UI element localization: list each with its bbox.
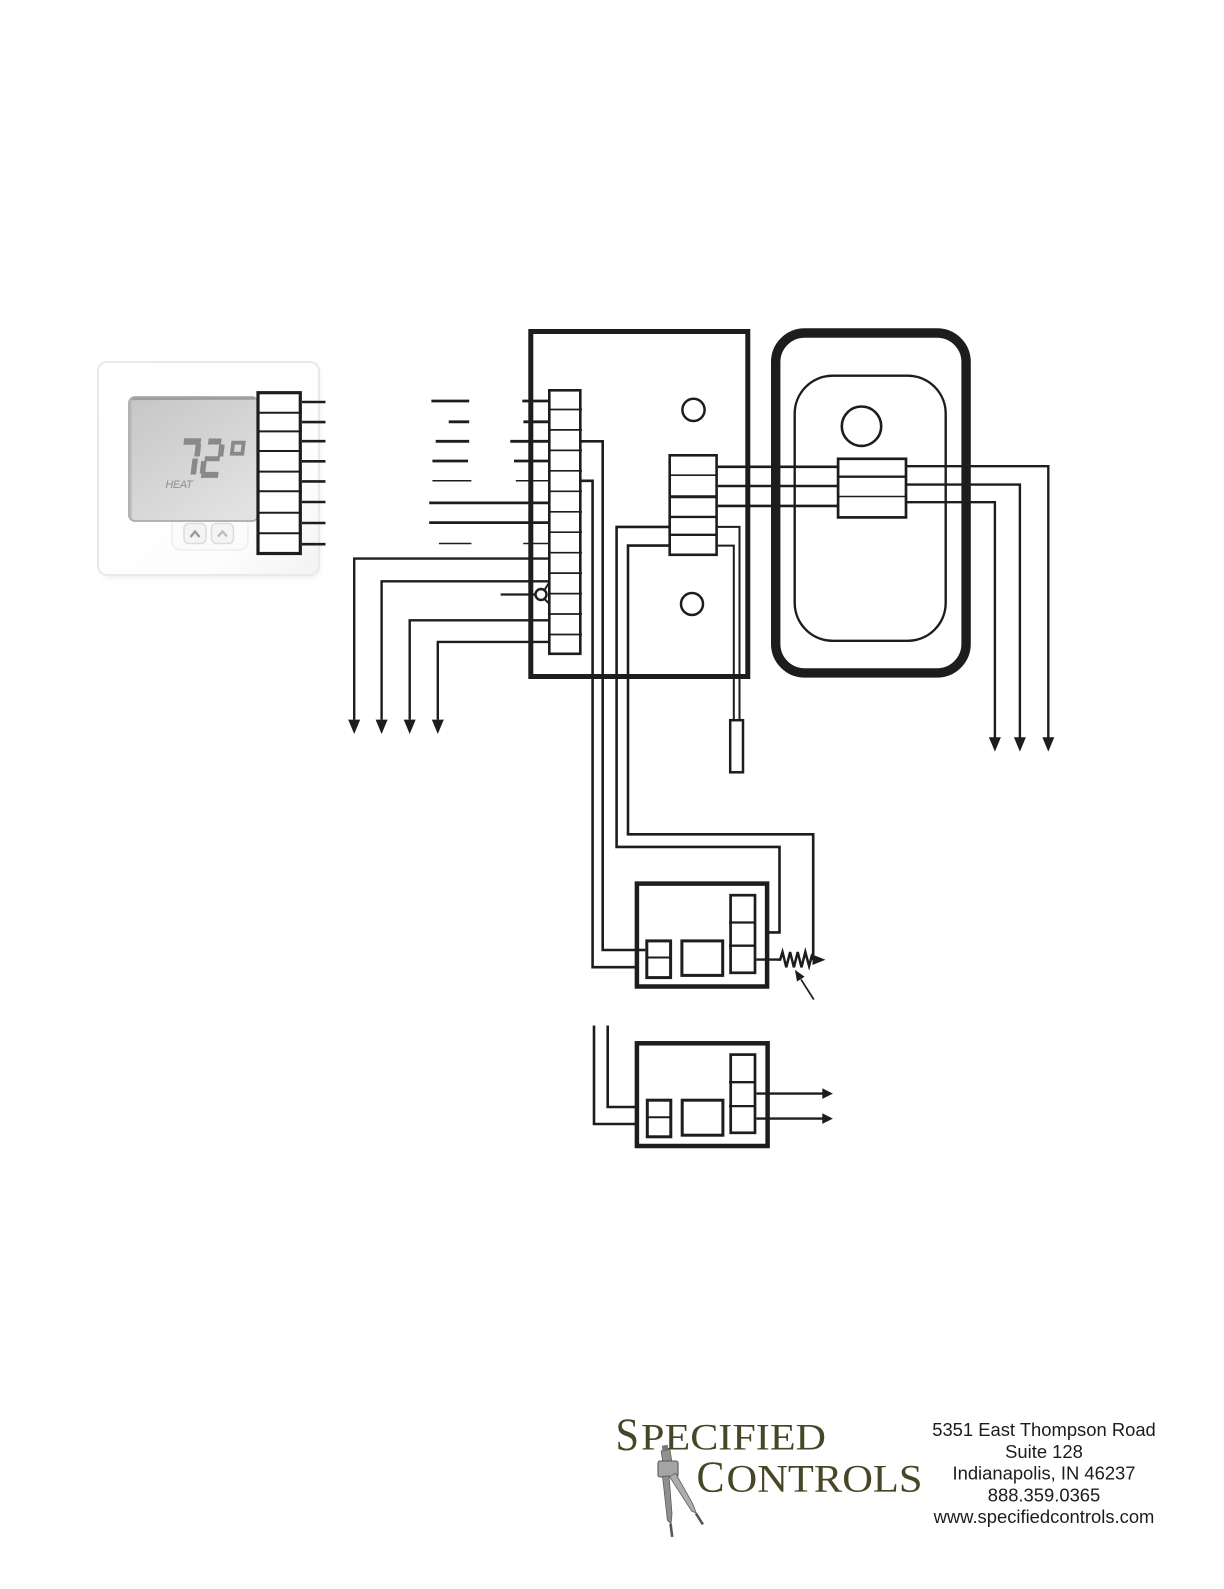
wire T1: TB3 cell1 to actuator block bbox=[718, 465, 838, 468]
controller mounting hole (top circle) bbox=[682, 399, 704, 421]
relay K1 box bbox=[637, 884, 767, 987]
logo compass icon bbox=[658, 1445, 705, 1538]
temperature sensor probe bbox=[730, 720, 743, 772]
relay K1 terminal strip bbox=[729, 895, 756, 973]
actuator terminal block TB4 (3 cells) bbox=[837, 459, 906, 518]
controller mounting hole (lower circle) bbox=[681, 593, 703, 615]
sensor bulb at TB2 row11 bbox=[501, 582, 550, 605]
wires into controller strip (rows 6,7 full; others stubs) bbox=[429, 401, 549, 544]
relay K2 floating wire 2 bbox=[608, 1026, 646, 1108]
sensor lead left line bbox=[717, 546, 734, 720]
wire B: TB2 row3 down to relay K1 bbox=[582, 441, 646, 950]
actuator shaft circle bbox=[842, 407, 881, 446]
arrow head 3 bbox=[404, 720, 416, 734]
svg-text:888.359.0365: 888.359.0365 bbox=[988, 1484, 1101, 1505]
mid-span broken wire dashes bbox=[431, 401, 471, 544]
wire: TB2 row13 to down-arrow 4 bbox=[438, 642, 549, 720]
relay K1 coil box bbox=[647, 941, 671, 978]
arrow head T3 bbox=[989, 737, 1001, 751]
terminal block TB3 (5 cells) bbox=[669, 455, 717, 555]
arrow head 1 bbox=[348, 720, 360, 734]
address block bbox=[932, 1419, 1156, 1527]
relay K2 terminal strip bbox=[729, 1055, 756, 1133]
controller box U1 bbox=[531, 332, 748, 677]
wire: TB2 row12 to down-arrow 3 bbox=[410, 620, 549, 719]
wire: TB2 row10 to down-arrow 2 bbox=[382, 581, 549, 719]
relay K1 wire out bottom to rheostat bbox=[756, 958, 778, 960]
relay K1 wire in left upper bbox=[637, 949, 645, 952]
wire A: TB2 row5 down to relay K1 bbox=[582, 481, 646, 967]
arrow head 4 bbox=[432, 720, 444, 734]
relay K2 floating wire 1 bbox=[594, 1026, 646, 1125]
controller terminal strip TB2 (13 cells) bbox=[548, 390, 582, 654]
actuator outer housing (rounded) bbox=[776, 333, 966, 673]
actuator inner housing bbox=[795, 376, 946, 641]
relay K2 coil box bbox=[647, 1100, 671, 1137]
svg-text:C: C bbox=[697, 1452, 725, 1502]
wire T1 out: actuator block right, down to arrow bbox=[906, 466, 1048, 738]
svg-text:ONTROLS: ONTROLS bbox=[727, 1457, 923, 1501]
thermostat terminal strip TB1 bbox=[257, 393, 302, 554]
wire T2 out bbox=[906, 485, 1020, 738]
arrow head T2 bbox=[1014, 737, 1026, 751]
logo SPECIFIED CONTROLS bbox=[616, 1409, 923, 1502]
wire T3: TB3 cell3 to actuator block bbox=[718, 505, 838, 508]
thermostat display digits 72 deg bbox=[180, 442, 244, 475]
arrow head K2 out1 bbox=[822, 1088, 833, 1099]
thermostat buttons bbox=[184, 524, 234, 544]
svg-text:www.specifiedcontrols.com: www.specifiedcontrols.com bbox=[933, 1506, 1155, 1527]
relay K2 box bbox=[637, 1043, 768, 1146]
TB1 wire stubs bbox=[302, 402, 326, 544]
arrow head K2 out2 bbox=[822, 1113, 833, 1124]
adjustment pointer arrow bbox=[795, 970, 814, 1000]
svg-text:HEAT: HEAT bbox=[166, 479, 194, 491]
wire: TB2 row9 to down-arrow 1 bbox=[354, 559, 549, 720]
wire T2: TB3 cell2 to actuator block bbox=[718, 485, 838, 488]
wire T3 out bbox=[906, 502, 995, 738]
rheostat R1 zigzag bbox=[778, 952, 814, 967]
rheostat output arrow bbox=[813, 955, 826, 965]
wire C: TB3 cell4 left, down, right, up into relay K1 bbox=[617, 527, 780, 933]
thermostat TSTAT body bbox=[98, 362, 320, 578]
arrow head 2 bbox=[376, 720, 388, 734]
thermostat LCD screen bbox=[129, 397, 258, 521]
relay K2 wire out 1 bbox=[756, 1092, 823, 1094]
wire D: TB3 cell5 left, down, right, down to rheostat bbox=[628, 546, 813, 960]
relay K2 contact box bbox=[682, 1100, 723, 1135]
svg-text:Indianapolis, IN 46237: Indianapolis, IN 46237 bbox=[952, 1463, 1135, 1484]
svg-text:5351 East Thompson Road: 5351 East Thompson Road bbox=[932, 1419, 1156, 1440]
svg-text:Suite 128: Suite 128 bbox=[1005, 1441, 1083, 1462]
svg-text:S: S bbox=[616, 1409, 640, 1461]
relay K2 wire out 2 bbox=[756, 1117, 823, 1119]
relay K1 contact box bbox=[682, 941, 723, 976]
sensor lead right line bbox=[717, 527, 740, 720]
arrow head T1 bbox=[1042, 737, 1054, 751]
